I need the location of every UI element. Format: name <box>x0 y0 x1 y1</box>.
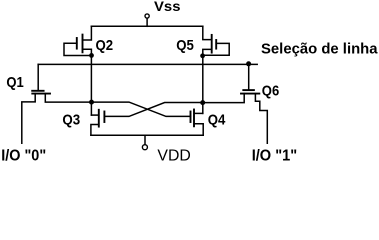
Q1 gate bar <box>32 90 43 92</box>
junction dot Q2 source / node A <box>89 53 94 58</box>
Q4 channel bar <box>193 110 195 127</box>
wire Q5 source lead <box>203 49 212 55</box>
svg-text:Seleção de linha: Seleção de linha <box>261 40 378 57</box>
transistor Q4 (driver, right) <box>191 110 204 136</box>
wire Q3 drain stub <box>91 114 98 116</box>
Q4 gate bar <box>190 112 192 123</box>
svg-text:Q4: Q4 <box>208 111 226 128</box>
svg-text:Q3: Q3 <box>62 111 80 128</box>
Q3 channel bar <box>98 110 100 127</box>
transistor Q3 (driver, left) <box>91 110 105 136</box>
wire node B vertical <box>202 56 204 114</box>
junction dot word line to Q6 gate <box>246 61 251 66</box>
Q3 gate bar <box>103 112 105 123</box>
Q6 channel bar <box>241 93 259 95</box>
wire Q6 gate lead from word line <box>248 64 250 89</box>
wire top rail <box>91 25 202 27</box>
wire VDD tap <box>144 135 146 144</box>
svg-text:Q5: Q5 <box>176 37 194 54</box>
wire Q6 right lead to I/O "1" <box>255 94 267 144</box>
svg-text:VDD: VDD <box>157 148 190 165</box>
wire Q5 gate loop (gate tied to source) <box>203 43 229 55</box>
Q5 gate bar <box>215 40 217 49</box>
transistor Q2 (load, left) <box>64 26 91 55</box>
wire Q2 source lead <box>83 49 92 55</box>
wire Q5 drain lead <box>203 26 212 39</box>
svg-text:I/O "1": I/O "1" <box>252 147 298 164</box>
wire Q4 source lead <box>194 124 203 136</box>
svg-text:Q1: Q1 <box>6 74 23 91</box>
wire Q1 right lead to node A <box>45 94 91 103</box>
svg-text:Vss: Vss <box>154 0 181 14</box>
wire Q3 source lead <box>91 125 99 136</box>
wire Q2 drain lead <box>83 26 92 40</box>
Q1 channel bar <box>32 93 50 95</box>
junction dot Q5 source / node B <box>200 53 205 58</box>
wire Q1 gate lead from word line <box>37 64 39 90</box>
transistor Q5 (load, right) <box>203 26 229 55</box>
junction dot node A bottom <box>89 100 94 105</box>
wire Q1 left lead to I/O "0" <box>22 94 35 144</box>
wire cross-couple node A to Q4 gate <box>91 102 190 116</box>
Q2 gate bar <box>76 38 78 49</box>
svg-text:Q2: Q2 <box>96 37 114 54</box>
wire word line (row select) <box>38 63 257 65</box>
wire Vss lead <box>146 18 148 26</box>
Q2 channel bar <box>82 35 84 53</box>
junction dot node B bottom <box>200 100 205 105</box>
transistor Q6 (access, right) <box>203 64 267 143</box>
VDD terminal circle <box>142 145 147 150</box>
wire Q2 gate loop (gate tied to source) <box>64 43 91 55</box>
wire node A vertical <box>90 55 92 115</box>
wire cross-couple node B to Q3 gate <box>104 103 202 117</box>
Q5 channel bar <box>211 35 213 53</box>
Vss terminal circle <box>145 14 149 18</box>
wire VDD rail <box>91 134 203 136</box>
wire Q4 drain stub <box>194 112 203 114</box>
svg-text:I/O "0": I/O "0" <box>1 147 46 164</box>
svg-text:Q6: Q6 <box>262 82 279 99</box>
wire Q6 left lead to node B <box>203 94 244 103</box>
transistor Q1 (access, left) <box>22 64 92 143</box>
Q6 gate bar <box>243 89 254 91</box>
